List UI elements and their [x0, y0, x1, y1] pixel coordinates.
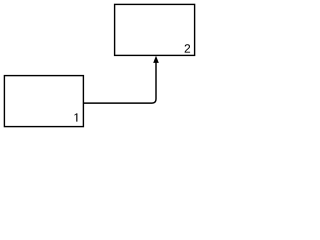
wire: [84, 59, 156, 104]
box 1: [4, 76, 83, 127]
label 2: [185, 44, 190, 52]
box 2: [115, 4, 195, 55]
label 1: [74, 113, 77, 121]
arrowhead: [153, 56, 159, 63]
